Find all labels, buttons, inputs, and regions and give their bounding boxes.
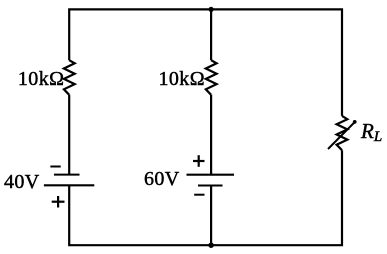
svg-text:40V: 40V xyxy=(4,171,40,193)
svg-text:10kΩ: 10kΩ xyxy=(159,68,205,90)
svg-text:60V: 60V xyxy=(144,168,180,190)
svg-text:10kΩ: 10kΩ xyxy=(18,68,64,90)
